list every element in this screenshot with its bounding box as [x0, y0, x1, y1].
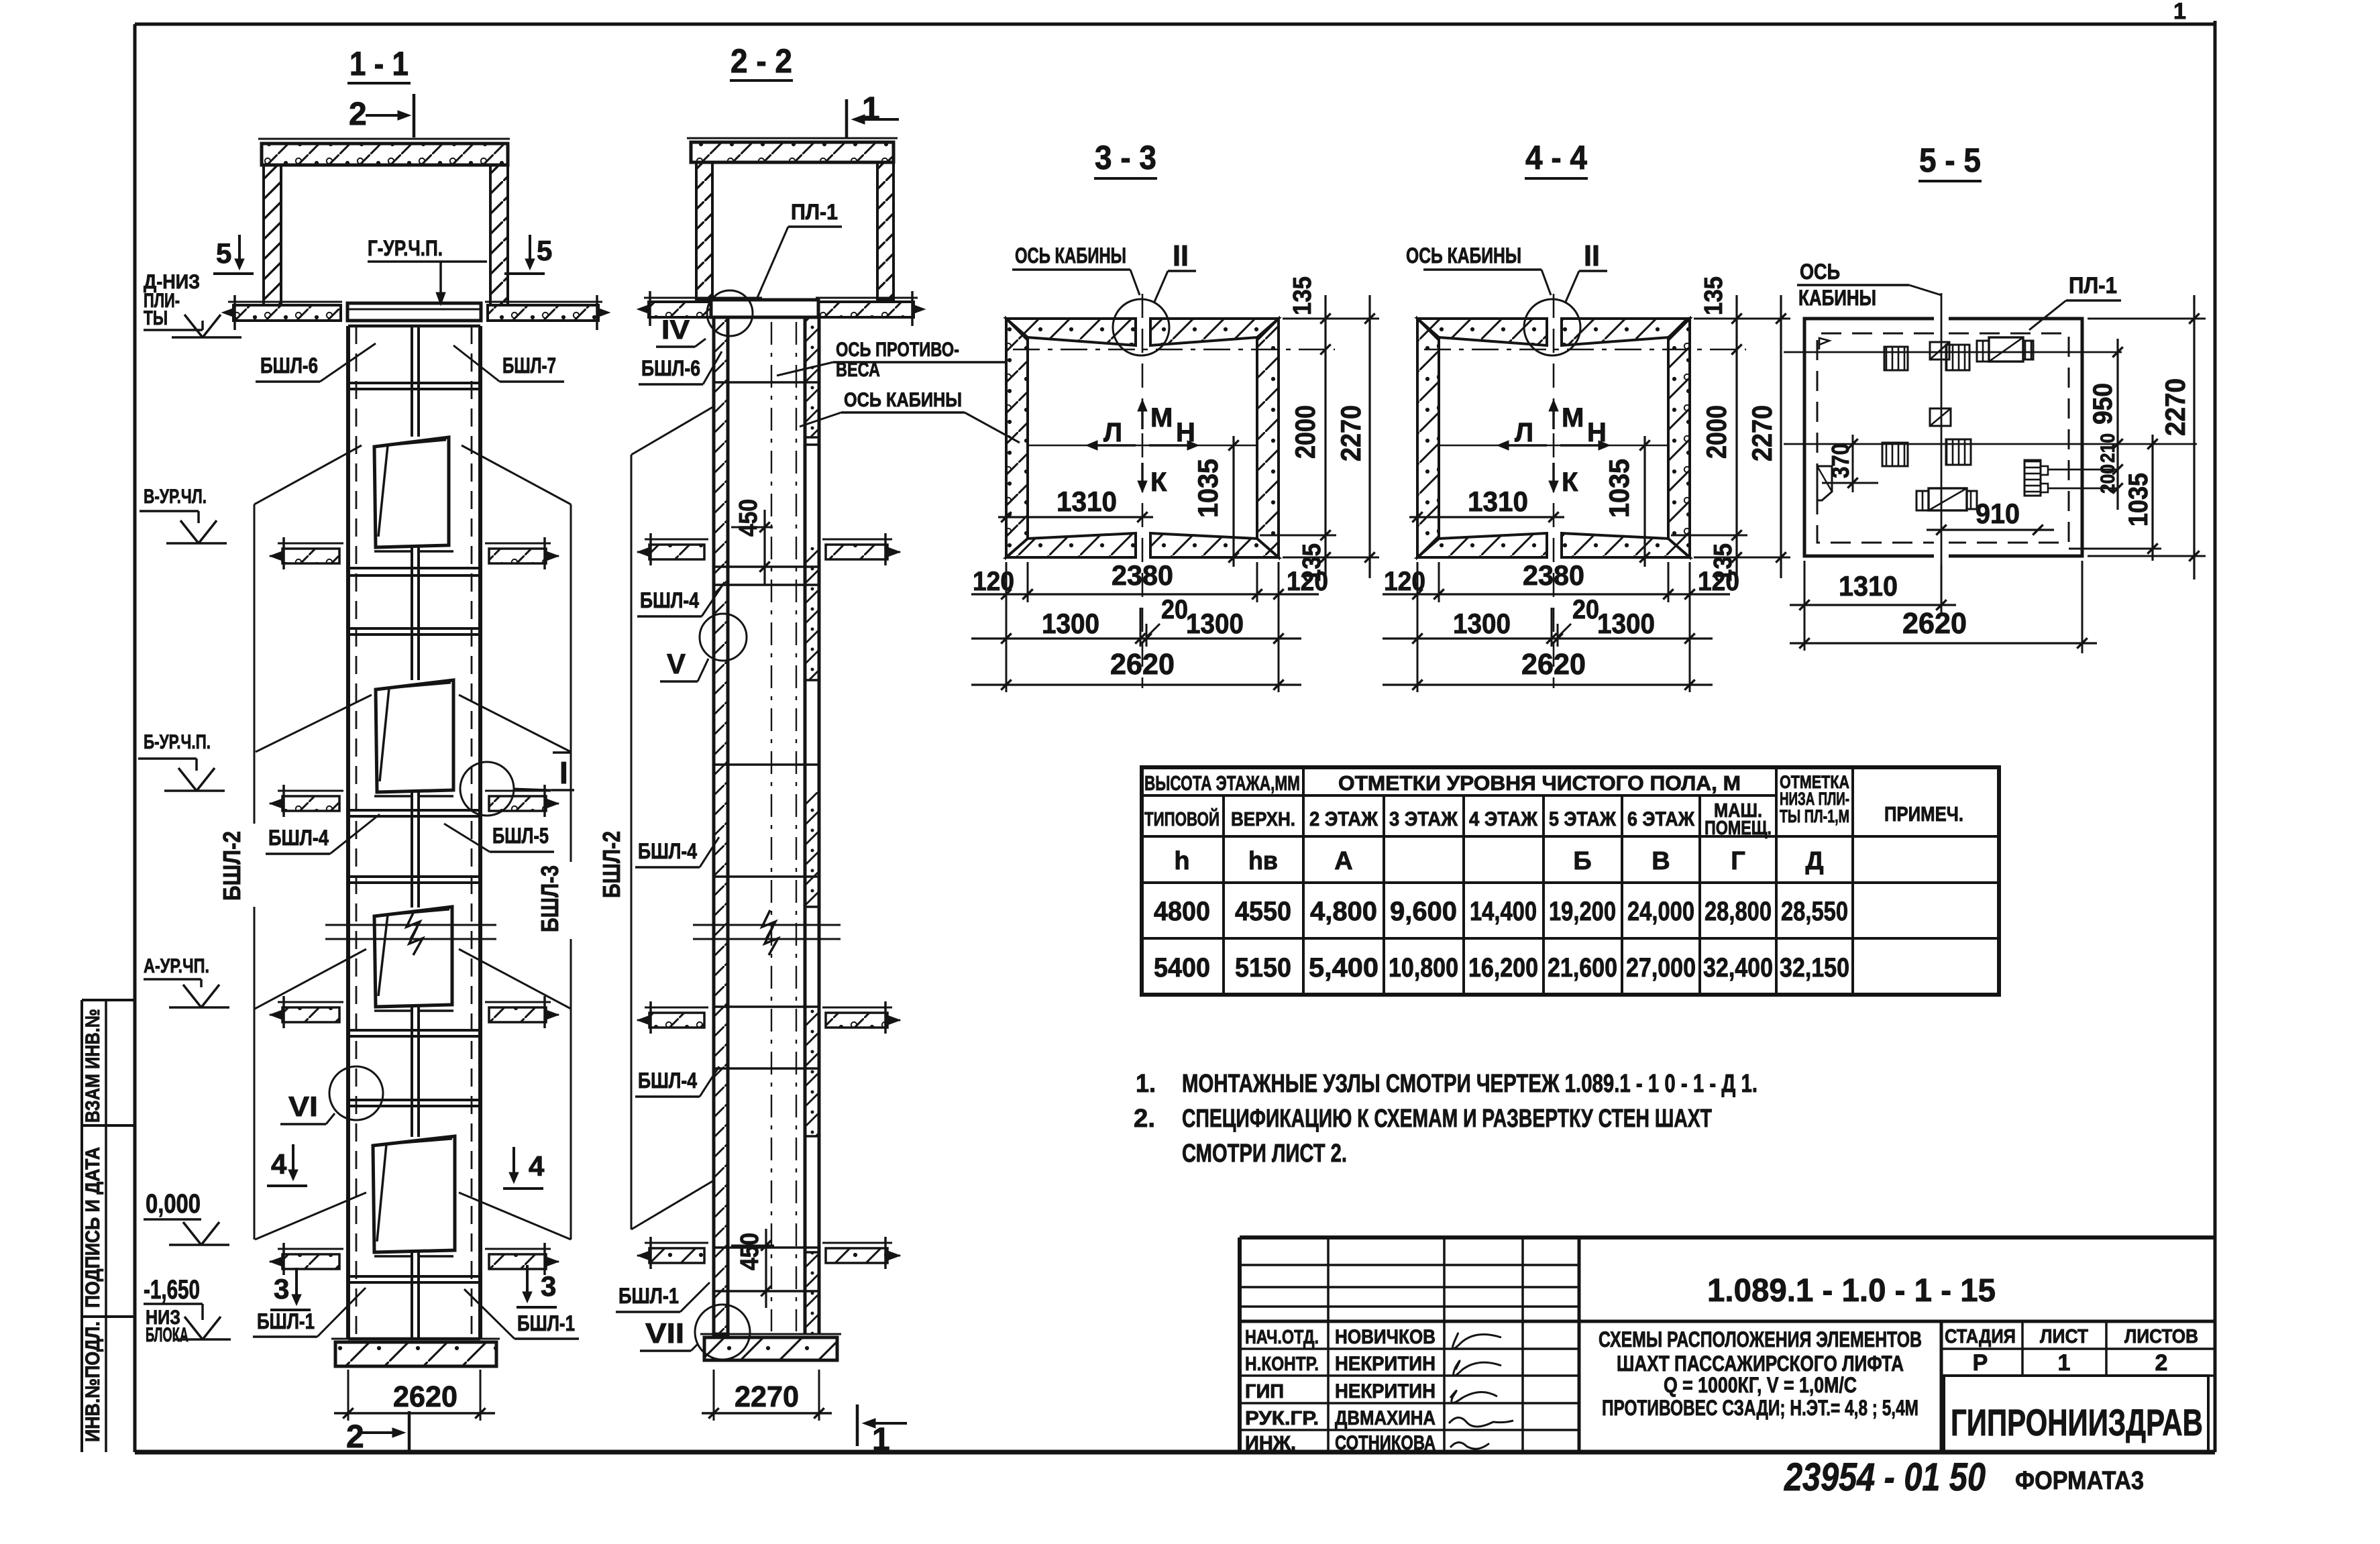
- svg-text:2: 2: [346, 1419, 364, 1455]
- svg-text:1: 1: [2173, 0, 2186, 24]
- svg-text:200: 200: [2097, 464, 2119, 494]
- svg-text:32,400: 32,400: [1703, 953, 1773, 983]
- shaft bottom joint 1-1: [348, 1337, 480, 1341]
- dimension row 1300 20 1300 3-3: [971, 595, 1301, 647]
- svg-text:1 - 1: 1 - 1: [349, 45, 409, 82]
- dimension 1035 4-4: [1603, 436, 1650, 567]
- svg-text:5400: 5400: [1154, 953, 1210, 983]
- machine room roof slab 1-1: [258, 138, 510, 140]
- floor slab brackets 2-2: [637, 533, 900, 565]
- dimension 910 5-5: [1927, 498, 2054, 535]
- door sill steps 1-1: [374, 551, 453, 1256]
- svg-text:ВЗАМ ИНВ.№: ВЗАМ ИНВ.№: [82, 1009, 104, 1123]
- svg-text:БШЛ-2: БШЛ-2: [218, 831, 246, 901]
- svg-text:В-УР.ЧЛ.: В-УР.ЧЛ.: [144, 486, 207, 508]
- svg-text:5,400: 5,400: [1309, 953, 1378, 983]
- signatures squiggles: [1449, 1333, 1513, 1449]
- svg-text:А-УР.ЧП.: А-УР.ЧП.: [144, 955, 209, 977]
- pit slab 2-2: [700, 1334, 841, 1360]
- svg-text:БШЛ-4: БШЛ-4: [638, 839, 697, 863]
- drawing break lines 2-2: [693, 910, 841, 955]
- svg-text:ОСЬ ПРОТИВО-: ОСЬ ПРОТИВО-: [836, 339, 959, 361]
- svg-text:БШЛ-4: БШЛ-4: [268, 826, 329, 850]
- plan outer walls 3-3: [1006, 319, 1279, 557]
- door opening leaf 3 1-1: [374, 907, 452, 1007]
- svg-text:ТИПОВОЙ: ТИПОВОЙ: [1144, 808, 1220, 830]
- dimension row 1300 20 1300 4-4: [1383, 595, 1713, 647]
- svg-text:2000: 2000: [1289, 405, 1321, 459]
- svg-text:БШЛ-2: БШЛ-2: [598, 831, 625, 898]
- svg-text:20: 20: [1161, 595, 1188, 624]
- svg-text:5 ЭТАЖ: 5 ЭТАЖ: [1549, 808, 1617, 830]
- svg-text:БЛОКА: БЛОКА: [146, 1324, 188, 1346]
- svg-text:ГИП: ГИП: [1245, 1381, 1284, 1402]
- svg-text:ТЫ ПЛ-1,М: ТЫ ПЛ-1,М: [1780, 806, 1849, 826]
- equipment governor J 5-5: [2024, 460, 2118, 496]
- svg-text:ИНВ.№ПОДЛ.: ИНВ.№ПОДЛ.: [82, 1321, 104, 1442]
- svg-text:1.089.1 - 1.0 - 1 - 15: 1.089.1 - 1.0 - 1 - 15: [1707, 1273, 1996, 1309]
- svg-text:ОСЬ КАБИНЫ: ОСЬ КАБИНЫ: [1406, 243, 1521, 268]
- svg-text:БШЛ-4: БШЛ-4: [638, 1068, 697, 1093]
- shaft horizontal block joints 1-1: [348, 382, 480, 384]
- svg-text:3: 3: [541, 1270, 556, 1302]
- svg-text:2270: 2270: [2159, 378, 2191, 436]
- equipment hatched block F 5-5: [1882, 443, 1908, 466]
- svg-text:120: 120: [973, 567, 1014, 596]
- equipment hatched block A 5-5: [1884, 347, 1908, 370]
- svg-text:1310: 1310: [1057, 486, 1117, 517]
- svg-text:4: 4: [529, 1150, 545, 1182]
- floor slab brackets at level 1862 1-1: [270, 1243, 559, 1275]
- svg-text:6 ЭТАЖ: 6 ЭТАЖ: [1627, 808, 1695, 830]
- svg-text:В: В: [1652, 847, 1670, 875]
- svg-text:ФОРМАТА3: ФОРМАТА3: [2015, 1467, 2144, 1495]
- dimension row 120 2380 120 3-3: [971, 559, 1328, 692]
- svg-text:Н: Н: [1587, 418, 1607, 447]
- svg-text:2000: 2000: [1700, 405, 1732, 459]
- svg-text:Л: Л: [1103, 418, 1122, 447]
- svg-text:Г: Г: [1731, 847, 1745, 875]
- svg-text:СХЕМЫ РАСПОЛОЖЕНИЯ ЭЛЕМЕНТОВ: СХЕМЫ РАСПОЛОЖЕНИЯ ЭЛЕМЕНТОВ: [1599, 1327, 1922, 1352]
- svg-text:2620: 2620: [1110, 648, 1175, 681]
- names column texts: [1245, 1326, 1436, 1454]
- svg-text:450: 450: [735, 499, 763, 537]
- dimension 450 lower 2-2: [731, 1229, 774, 1308]
- svg-text:910: 910: [1976, 498, 2020, 529]
- svg-text:НОВИЧКОВ: НОВИЧКОВ: [1335, 1326, 1436, 1348]
- axis arrows M L N K 4-4: [1497, 400, 1610, 497]
- svg-text:ДВМАХИНА: ДВМАХИНА: [1335, 1407, 1436, 1429]
- mark II circle 3-3: [1113, 299, 1169, 355]
- svg-text:950: 950: [2088, 383, 2118, 425]
- stadia list listov header: [1941, 1321, 2215, 1376]
- svg-text:БШЛ-6: БШЛ-6: [260, 353, 318, 378]
- svg-text:2270: 2270: [1335, 405, 1366, 461]
- svg-text:5 - 5: 5 - 5: [1919, 142, 1981, 179]
- svg-text:Б: Б: [1573, 847, 1591, 875]
- svg-text:2620: 2620: [1902, 607, 1967, 640]
- machine floor left slab 2-2: [644, 297, 762, 299]
- svg-text:28,550: 28,550: [1781, 897, 1848, 926]
- svg-text:ОСЬ КАБИНЫ: ОСЬ КАБИНЫ: [1015, 243, 1126, 268]
- svg-text:1300: 1300: [1453, 608, 1511, 639]
- svg-text:ПОДПИСЬ И ДАТА: ПОДПИСЬ И ДАТА: [82, 1147, 104, 1308]
- svg-text:СТАДИЯ: СТАДИЯ: [1945, 1326, 2016, 1347]
- svg-text:БШЛ-7: БШЛ-7: [502, 353, 556, 378]
- svg-text:М: М: [1562, 403, 1584, 433]
- svg-text:К: К: [1562, 467, 1578, 497]
- shaft horizontal joints 2-2: [714, 381, 819, 384]
- dimension 2270 below 2-2: [702, 1370, 832, 1421]
- svg-text:27,000: 27,000: [1626, 953, 1696, 983]
- svg-text:Д: Д: [1805, 847, 1823, 875]
- svg-text:БШЛ-3: БШЛ-3: [536, 865, 563, 932]
- title block outer frame: [1240, 1237, 2215, 1452]
- equipment bottom sheave I 5-5: [1916, 488, 1977, 510]
- svg-text:2 ЭТАЖ: 2 ЭТАЖ: [1309, 808, 1378, 830]
- equipment left bracket H 5-5: [1817, 466, 1832, 500]
- svg-text:ПОМЕЩ.: ПОМЕЩ.: [1705, 818, 1772, 839]
- shaft top joint 1-1: [348, 325, 480, 328]
- dimension 2620 below 1-1: [334, 1370, 495, 1421]
- svg-text:2620: 2620: [1521, 648, 1586, 681]
- svg-text:-1,650: -1,650: [144, 1275, 200, 1305]
- svg-text:ПРИМЕЧ.: ПРИМЕЧ.: [1884, 802, 1963, 826]
- svg-text:СПЕЦИФИКАЦИЮ К СХЕМАМ И: СПЕЦИФИКАЦИЮ К СХЕМАМ И РАЗВЕРТКУ СТЕН Ш…: [1182, 1105, 1712, 1133]
- svg-text:5150: 5150: [1235, 953, 1291, 983]
- svg-text:19,200: 19,200: [1549, 897, 1616, 926]
- machine room slab plan outline 5-5: [1804, 319, 2082, 556]
- svg-text:VI: VI: [288, 1091, 318, 1122]
- svg-text:2620: 2620: [393, 1380, 457, 1413]
- svg-text:2 - 2: 2 - 2: [731, 42, 792, 80]
- svg-text:ПЛ-1: ПЛ-1: [2069, 273, 2117, 298]
- counterweight horizontal axis 5-5: [1784, 351, 2122, 353]
- svg-text:16,200: 16,200: [1468, 953, 1538, 983]
- svg-text:120: 120: [1384, 567, 1425, 596]
- svg-text:3 ЭТАЖ: 3 ЭТАЖ: [1389, 808, 1458, 830]
- svg-text:hв: hв: [1248, 847, 1278, 875]
- table letter row: [1174, 847, 1823, 875]
- svg-text:9,600: 9,600: [1390, 897, 1457, 926]
- svg-text:2: 2: [349, 97, 367, 132]
- floor slab brackets at level 810 1-1: [270, 537, 559, 569]
- svg-text:1310: 1310: [1839, 570, 1898, 602]
- svg-text:4 ЭТАЖ: 4 ЭТАЖ: [1469, 808, 1538, 830]
- svg-text:ГИПРОНИИЗДРАВ: ГИПРОНИИЗДРАВ: [1951, 1401, 2203, 1443]
- svg-text:20: 20: [1572, 595, 1599, 624]
- shaft below dashed outline 5-5: [1817, 333, 2069, 543]
- machine floor plate PL-1 1-1: [347, 303, 481, 321]
- callout bracket left BShL-2 region 1-1: [254, 445, 372, 1239]
- svg-text:2270: 2270: [735, 1380, 799, 1413]
- svg-text:3: 3: [274, 1273, 289, 1305]
- svg-text:4 - 4: 4 - 4: [1525, 139, 1587, 176]
- svg-text:РУК.ГР.: РУК.ГР.: [1245, 1408, 1319, 1429]
- svg-text:Q = 1000КГ, V = 1,0М/С: Q = 1000КГ, V = 1,0М/С: [1664, 1373, 1857, 1397]
- corner flag mark 5-5: [1819, 338, 1829, 349]
- svg-text:2270: 2270: [1746, 405, 1778, 461]
- svg-text:0,000: 0,000: [146, 1189, 201, 1219]
- svg-text:135: 135: [1709, 543, 1737, 582]
- left margin stamp column: [82, 1000, 135, 1452]
- svg-text:1300: 1300: [1597, 608, 1655, 639]
- svg-text:2380: 2380: [1112, 559, 1173, 591]
- axis arrows M L N K 3-3: [1086, 400, 1199, 497]
- svg-text:450: 450: [736, 1233, 764, 1270]
- svg-text:БШЛ-1: БШЛ-1: [517, 1311, 575, 1335]
- dimension 450 upper 2-2: [731, 499, 773, 585]
- cabin vertical axis 5-5: [1941, 293, 1943, 606]
- dimension row 120 2380 120 4-4: [1383, 559, 1739, 692]
- svg-text:Л: Л: [1515, 418, 1533, 447]
- svg-text:А: А: [1334, 847, 1352, 875]
- svg-text:Г-УР.Ч.П.: Г-УР.Ч.П.: [368, 236, 443, 260]
- svg-text:ШАХТ ПАССАЖИРСКОГО ЛИФТА: ШАХТ ПАССАЖИРСКОГО ЛИФТА: [1617, 1352, 1904, 1376]
- svg-text:I: I: [559, 755, 568, 790]
- svg-text:1.: 1.: [1136, 1070, 1156, 1098]
- shaft outer wall edges 1-1: [346, 326, 350, 1339]
- svg-text:24,000: 24,000: [1627, 897, 1694, 926]
- shaft hidden wall lines 1-1: [356, 326, 358, 1339]
- svg-text:ЛИСТ: ЛИСТ: [2040, 1326, 2088, 1347]
- pit slab 1-1: [331, 1339, 500, 1366]
- counterweight axis dash-dot 3-3: [1013, 349, 1335, 351]
- svg-text:2380: 2380: [1523, 559, 1584, 591]
- svg-text:СМОТРИ ЛИСТ 2.: СМОТРИ ЛИСТ 2.: [1182, 1140, 1347, 1168]
- vertical dims 135 2000 135 4-4: [1671, 276, 1790, 582]
- center vertical joints 1-1: [411, 326, 413, 437]
- svg-text:135: 135: [1700, 276, 1728, 315]
- svg-text:ОСЬ: ОСЬ: [1800, 260, 1840, 284]
- svg-text:135: 135: [1298, 543, 1326, 582]
- mark II circle 4-4: [1524, 299, 1580, 355]
- svg-text:НЕКРИТИН: НЕКРИТИН: [1335, 1353, 1436, 1375]
- svg-text:2: 2: [2155, 1350, 2168, 1376]
- equipment pulley E 5-5: [1930, 408, 1951, 426]
- svg-text:210: 210: [2097, 433, 2119, 463]
- organization name GIPRONIIZDRAV: [1944, 1376, 2208, 1452]
- machine room right wall 2-2: [877, 162, 894, 300]
- counterweight axis dash-dot 4-4: [1424, 349, 1746, 351]
- floor slab brackets at level 1179 1-1: [270, 785, 559, 817]
- machine floor right slab 1-1: [485, 301, 602, 303]
- dims 950 210 200 right 5-5: [2088, 339, 2123, 510]
- machine room right wall 1-1: [490, 165, 508, 305]
- svg-text:h: h: [1174, 847, 1189, 875]
- svg-text:135: 135: [1289, 276, 1317, 315]
- project title text: [1599, 1327, 1922, 1420]
- equipment main drive D 5-5: [1977, 337, 2033, 362]
- svg-text:ПРОТИВОВЕС СЗАДИ; Н.ЭТ.= 4,8 ;: ПРОТИВОВЕС СЗАДИ; Н.ЭТ.= 4,8 ; 5,4М: [1602, 1396, 1918, 1420]
- svg-text:370: 370: [1827, 443, 1854, 478]
- dimension 1035 3-3: [1192, 436, 1239, 567]
- cabin horizontal axis line 4-4: [1440, 445, 1668, 447]
- svg-text:1300: 1300: [1186, 608, 1244, 639]
- svg-text:ПЛ-1: ПЛ-1: [791, 200, 838, 224]
- machine room left wall 2-2: [696, 162, 712, 300]
- dim 2270 5-5: [2088, 295, 2206, 580]
- dimension 2620 4-4: [1383, 648, 1713, 690]
- svg-text:1310: 1310: [1468, 486, 1528, 517]
- svg-text:28,800: 28,800: [1705, 897, 1772, 926]
- title block upper left grid: [1240, 1237, 1579, 1321]
- table data row 5400: [1154, 953, 1849, 983]
- svg-text:К: К: [1150, 467, 1167, 497]
- dimension 370 5-5: [1822, 435, 1878, 492]
- svg-text:VII: VII: [645, 1317, 684, 1349]
- svg-text:5: 5: [537, 235, 552, 266]
- svg-text:БШЛ-5: БШЛ-5: [492, 824, 549, 848]
- table header texts: [1144, 771, 1963, 839]
- svg-text:МОНТАЖНЫЕ УЗЛЫ СМОТРИ Ч: МОНТАЖНЫЕ УЗЛЫ СМОТРИ ЧЕРТЕЖ 1.089.1 - 1…: [1182, 1070, 1757, 1098]
- cabin vertical axis dashed 4-4: [1553, 294, 1555, 688]
- equipment pulley B 5-5: [1930, 342, 1949, 360]
- svg-text:1035: 1035: [1603, 459, 1635, 518]
- svg-text:II: II: [1584, 239, 1600, 272]
- svg-text:10,800: 10,800: [1389, 953, 1458, 983]
- svg-text:ОСЬ КАБИНЫ: ОСЬ КАБИНЫ: [844, 389, 962, 411]
- axis of cabin dashed 2-2: [796, 322, 797, 1331]
- callout bracket right BShL-3 region 1-1: [459, 445, 571, 1239]
- svg-text:4,800: 4,800: [1310, 897, 1377, 926]
- svg-text:НАЧ.ОТД.: НАЧ.ОТД.: [1245, 1327, 1319, 1348]
- svg-text:2.: 2.: [1134, 1105, 1155, 1133]
- plan outer walls 4-4: [1417, 319, 1690, 557]
- machine floor plate PL-1 2-2: [711, 300, 818, 317]
- floor levels table grid: [1142, 767, 1999, 995]
- svg-text:ОТМЕТКИ УРОВНЯ ЧИСТОГО ПОЛ: ОТМЕТКИ УРОВНЯ ЧИСТОГО ПОЛА, М: [1338, 771, 1741, 795]
- svg-text:Р: Р: [1973, 1350, 1988, 1376]
- door opening leaf 2 1-1: [376, 680, 453, 792]
- svg-text:БШЛ-1: БШЛ-1: [618, 1284, 679, 1308]
- svg-text:ВЕРХН.: ВЕРХН.: [1231, 809, 1295, 830]
- cabin horizontal axis line 3-3: [1029, 445, 1256, 447]
- svg-text:ИНЖ.: ИНЖ.: [1245, 1433, 1296, 1454]
- dim 2620 below 5-5: [1790, 561, 2097, 653]
- svg-text:21,600: 21,600: [1548, 953, 1617, 983]
- svg-text:II: II: [1173, 239, 1189, 272]
- title block names grid: [1240, 1321, 1579, 1452]
- svg-text:БШЛ-1: БШЛ-1: [257, 1309, 315, 1333]
- machine room left wall 1-1: [264, 165, 281, 305]
- svg-text:4800: 4800: [1154, 897, 1210, 926]
- machine floor left slab 1-1: [228, 301, 342, 303]
- dimension 2620 3-3: [971, 648, 1301, 690]
- svg-text:М: М: [1150, 403, 1173, 433]
- svg-text:Б-УР.Ч.П.: Б-УР.Ч.П.: [144, 731, 211, 753]
- svg-text:5: 5: [216, 237, 231, 269]
- callout bracket BShL-2 2-2: [631, 406, 714, 1229]
- door opening leaf 4 1-1: [373, 1136, 455, 1252]
- svg-text:14,400: 14,400: [1470, 897, 1537, 926]
- svg-text:СОТНИКОВА: СОТНИКОВА: [1335, 1432, 1436, 1454]
- table data row 4800: [1154, 897, 1848, 926]
- cabin horizontal axis 5-5: [1784, 443, 2197, 445]
- vertical dim 2270 4-4: [1746, 295, 1786, 578]
- svg-text:1035: 1035: [1192, 459, 1224, 518]
- dimension 1310 4-4: [1409, 486, 1564, 522]
- svg-text:V: V: [667, 648, 686, 679]
- svg-text:КАБИНЫ: КАБИНЫ: [1798, 286, 1876, 310]
- svg-text:Н.КОНТР.: Н.КОНТР.: [1245, 1354, 1319, 1375]
- svg-text:4: 4: [271, 1148, 287, 1180]
- svg-text:БШЛ-4: БШЛ-4: [640, 588, 699, 612]
- machine room roof slab 2-2: [687, 137, 898, 140]
- svg-text:4550: 4550: [1235, 897, 1291, 926]
- svg-text:3 - 3: 3 - 3: [1095, 139, 1156, 176]
- svg-text:ТЫ: ТЫ: [144, 307, 168, 329]
- svg-text:23954 - 01 50: 23954 - 01 50: [1784, 1455, 1986, 1499]
- drawing break lines 1-1: [325, 910, 496, 955]
- svg-text:1035: 1035: [2124, 473, 2153, 527]
- svg-text:БШЛ-6: БШЛ-6: [641, 356, 700, 380]
- dim 1310 below 5-5: [1790, 561, 1956, 651]
- svg-text:IV: IV: [661, 315, 690, 345]
- svg-text:ВЫСОТА ЭТАЖА,ММ: ВЫСОТА ЭТАЖА,ММ: [1144, 771, 1300, 795]
- shaft right wall 2-2 with door gaps: [804, 317, 807, 1334]
- floor slab brackets at level 1494 1-1: [270, 996, 559, 1028]
- svg-text:1: 1: [2058, 1350, 2071, 1376]
- machine floor right slab 2-2: [816, 297, 918, 299]
- vertical dims 135 2000 135 3-3: [1260, 276, 1379, 582]
- svg-text:НЕКРИТИН: НЕКРИТИН: [1335, 1380, 1436, 1402]
- shaft left wall 2-2: [714, 317, 728, 1334]
- cabin vertical axis dashed 3-3: [1142, 294, 1144, 688]
- svg-text:ЛИСТОВ: ЛИСТОВ: [2124, 1326, 2198, 1347]
- equipment hatched block G 5-5: [1946, 439, 1971, 465]
- svg-text:Н: Н: [1176, 418, 1195, 447]
- svg-text:1300: 1300: [1042, 608, 1099, 639]
- svg-text:32,150: 32,150: [1780, 953, 1849, 983]
- equipment hatched block C 5-5: [1946, 345, 1969, 370]
- vertical dim 2270 3-3: [1335, 295, 1375, 578]
- axis of counterweight dashed 2-2: [771, 322, 772, 1331]
- door opening leaf 1 1-1: [374, 437, 449, 547]
- dim 1035 5-5: [2069, 435, 2161, 561]
- dimension 1310 3-3: [998, 486, 1153, 522]
